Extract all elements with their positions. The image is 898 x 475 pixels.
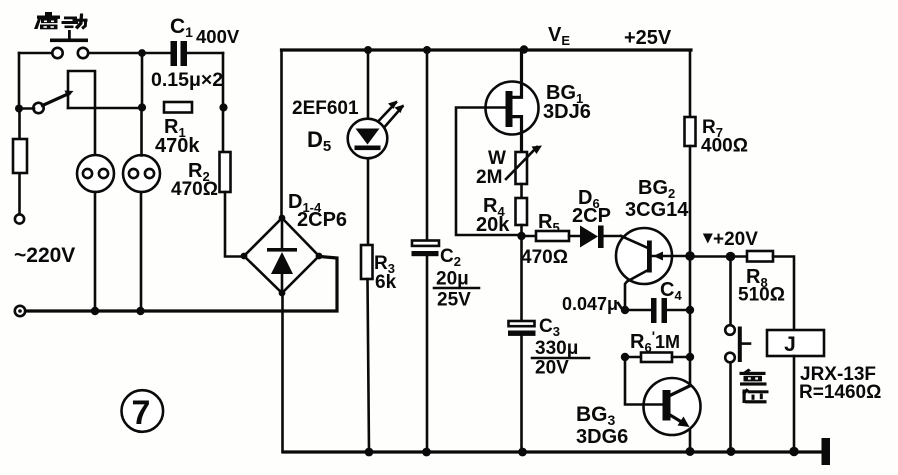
capacitor C4: [625, 309, 651, 312]
svg-text:J: J: [784, 333, 796, 356]
svg-text:20μ: 20μ: [436, 269, 469, 290]
bottom rail: [283, 450, 822, 453]
wire output node to R8: [690, 255, 747, 258]
transistor BG2 body: [616, 228, 672, 284]
wire bridge minus down to bottom rail: [281, 293, 284, 452]
resistor R4: [516, 198, 528, 225]
LED D5 wire top: [367, 50, 370, 119]
svg-text:2CP: 2CP: [572, 205, 611, 227]
wire button left lead: [19, 52, 52, 55]
junction node R1 right: [219, 103, 227, 111]
junction node VE: [520, 45, 528, 53]
relay coil J: [767, 330, 824, 356]
svg-text:470Ω: 470Ω: [521, 247, 568, 268]
diode D6: [580, 226, 598, 248]
svg-text:3DJ6: 3DJ6: [543, 101, 591, 123]
transistor BG2 internals: [647, 241, 652, 273]
svg-text:+25V: +25V: [624, 27, 672, 49]
junction node BG2 emitter: [685, 251, 695, 261]
junction node R6 left: [621, 353, 629, 361]
wire socket XS2 bottom: [140, 192, 143, 311]
wire D6 to BG2 base: [621, 236, 648, 248]
svg-text:R=1460Ω: R=1460Ω: [799, 382, 881, 403]
figure number 7: [122, 390, 164, 432]
svg-text:6k: 6k: [375, 272, 397, 293]
label 复位: [740, 369, 769, 404]
capacitor C3 chain: [520, 236, 523, 322]
junction node reset rail: [727, 447, 736, 456]
junction node XS2 rail: [136, 307, 144, 315]
resistor R1: [164, 102, 192, 113]
capacitor C2 wire top: [426, 50, 429, 240]
wire button right lead: [88, 52, 142, 55]
capacitor C1: [142, 52, 170, 55]
relay contact J-1 arm: [43, 94, 70, 106]
svg-text:20V: 20V: [535, 358, 569, 379]
wire 220V bottom rail to bridge right corner: [26, 257, 338, 312]
svg-text:400Ω: 400Ω: [701, 136, 748, 157]
wire socket XS1 bottom: [94, 192, 97, 311]
transistor BG1 gate wire and feedback: [456, 108, 520, 236]
transistor BG1 body: [486, 82, 539, 135]
junction node C2 rail: [422, 448, 431, 457]
wire bridge plus up to top rail: [280, 50, 283, 218]
lamp socket XS2: [123, 155, 160, 192]
label +20V with marker: [703, 234, 713, 244]
svg-text:510Ω: 510Ω: [738, 285, 785, 306]
capacitor C2 wire bottom: [426, 256, 429, 452]
label 启动: [34, 12, 88, 30]
junction node R3 rail: [365, 448, 374, 457]
capacitor C2: [412, 241, 439, 246]
resistor R8: [747, 251, 773, 262]
terminal upper (fuse end): [15, 214, 24, 223]
terminal lower 220V: [15, 306, 25, 316]
resistor R2: [220, 152, 231, 192]
junction node LED top: [364, 46, 372, 54]
junction node relay rail: [789, 447, 798, 456]
svg-text:20k: 20k: [476, 214, 510, 236]
resistor R3: [361, 245, 373, 279]
wire socket XS2 top: [140, 108, 143, 156]
svg-text:330μ: 330μ: [535, 338, 578, 359]
wire switch pivot to left node: [19, 107, 34, 110]
bridge rectifier D1-4 diamond: [244, 218, 319, 293]
junction node C2 top: [423, 46, 431, 54]
svg-text:470k: 470k: [155, 135, 200, 157]
junction node reset branch: [726, 252, 736, 262]
top rail VE +25V: [282, 48, 692, 51]
lamp socket XS1: [77, 155, 114, 192]
svg-text:~220V: ~220V: [14, 244, 75, 267]
wire down to fuse: [18, 109, 21, 214]
junction node R6 right: [686, 353, 694, 361]
wire W to R4: [520, 184, 523, 196]
junction node C4 right: [686, 306, 694, 314]
resistor R6': [625, 356, 641, 359]
svg-text:7: 7: [132, 394, 151, 432]
wire C1 right down to R2: [222, 53, 225, 152]
bridge corner nodes: [279, 215, 286, 222]
transistor BG3 base bar: [663, 390, 671, 421]
svg-text:470Ω: 470Ω: [171, 179, 218, 200]
wire LED to R3: [367, 161, 370, 246]
wire R2 bottom to bridge left corner: [225, 192, 244, 257]
junction node C1 left: [138, 49, 146, 57]
pushbutton 复位 chain: [729, 257, 732, 325]
resistor R5: [522, 235, 537, 238]
LED D5 emission arrows: [380, 103, 397, 121]
svg-text:0.15μ×2: 0.15μ×2: [151, 69, 223, 91]
wire BG3 emitter to rail: [689, 429, 692, 452]
svg-text:400V: 400V: [196, 26, 240, 47]
svg-text:3DG6: 3DG6: [576, 426, 628, 448]
relay contact J-1 pivot: [33, 103, 43, 113]
junction node R1 left: [138, 103, 146, 111]
svg-text:2M: 2M: [476, 167, 502, 188]
svg-text:25V: 25V: [437, 290, 471, 311]
junction node XS1 rail: [91, 307, 99, 315]
wire down from button node to R1 node: [141, 53, 144, 107]
wire R4 to node: [520, 225, 523, 236]
wire relay to rail: [793, 356, 796, 452]
junction node C4 left: [621, 306, 629, 314]
svg-text:+20V: +20V: [713, 229, 758, 250]
pushbutton 启动 contacts: [52, 48, 62, 58]
junction node divider: [517, 232, 525, 240]
pushbutton 启动 actuator bar: [50, 39, 88, 43]
wire R3 to bottom rail: [368, 279, 370, 452]
transistor BG3 body: [644, 378, 701, 435]
terminal bar bottom right: [822, 438, 831, 465]
svg-text:0.047μ: 0.047μ: [562, 294, 618, 314]
fuse: [13, 139, 27, 173]
junction node left: [15, 105, 23, 113]
wire left vertical from button to switch node: [18, 53, 21, 109]
svg-text:R6'1M: R6'1M: [630, 328, 680, 355]
wire contact frame to socket: [68, 71, 95, 155]
junction node C3 rail: [518, 448, 527, 457]
svg-text:3CG14: 3CG14: [625, 199, 689, 221]
resistor R7 chain: [689, 50, 692, 117]
LED D5: [348, 119, 388, 159]
svg-text:W: W: [488, 148, 506, 169]
bridge inner diode: [281, 221, 284, 250]
junction node BG3 rail: [686, 447, 695, 456]
svg-text:2CP6: 2CP6: [297, 209, 347, 231]
svg-text:2EF601: 2EF601: [292, 98, 359, 119]
potentiometer W: [516, 152, 528, 184]
wire to BG3 base: [625, 357, 662, 405]
